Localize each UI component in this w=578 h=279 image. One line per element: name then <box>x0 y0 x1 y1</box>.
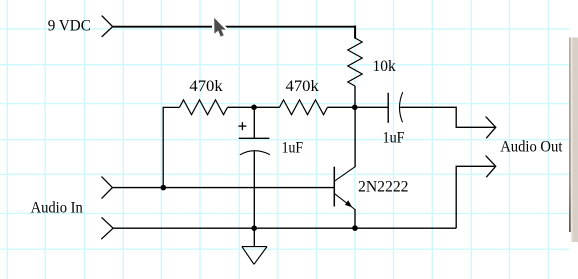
wire 10k to collector node <box>354 86 356 107</box>
wire 9V supply horizontal <box>113 26 356 28</box>
wire C2 to output corner <box>400 107 495 127</box>
resistor 470k right <box>280 100 328 115</box>
port Audio Out bottom <box>486 156 496 177</box>
svg-text:9 VDC: 9 VDC <box>48 17 91 34</box>
node input junction <box>161 185 167 191</box>
port 9 VDC <box>102 16 113 37</box>
capacitor C1 curved plate <box>240 151 270 155</box>
svg-text:10k: 10k <box>373 58 396 75</box>
capacitor C1 top plate <box>239 137 270 139</box>
node ground rail / C1 junction <box>251 225 257 231</box>
wire R1 to bias node <box>228 106 255 108</box>
svg-text:Audio In: Audio In <box>31 200 83 217</box>
svg-text:470k: 470k <box>189 78 222 95</box>
mouse cursor <box>214 18 226 37</box>
wire ground rail <box>113 227 456 229</box>
node ground rail / emitter junction <box>352 225 358 231</box>
wire bias node to R2 <box>254 106 280 108</box>
port Audio Out top <box>486 117 496 138</box>
ground symbol <box>242 247 267 265</box>
port Audio In bottom <box>102 218 114 239</box>
capacitor C1 1uF electrolytic plus sign <box>238 122 246 130</box>
transistor Q1 emitter stroke <box>334 194 355 210</box>
transistor Q1 emitter arrowhead <box>345 200 352 207</box>
transistor Q1 2N2222 base bar <box>333 167 335 207</box>
resistor 470k left <box>180 100 228 115</box>
wire ground rail to output corner bottom <box>456 166 495 228</box>
wire collector lead <box>354 107 356 167</box>
wire R2 to collector node <box>328 106 356 108</box>
svg-text:1uF: 1uF <box>282 139 304 156</box>
wire 9V supply drop to R3 <box>354 26 356 39</box>
wire collector node to C2 <box>355 106 388 108</box>
port Audio In top <box>102 177 113 198</box>
resistor 10k <box>348 38 362 86</box>
svg-text:2N2222: 2N2222 <box>358 178 409 195</box>
wire C1 to ground rail <box>253 151 255 247</box>
wire emitter lead <box>354 209 356 228</box>
window edge strip <box>569 38 578 243</box>
node collector junction <box>352 105 358 111</box>
capacitor C1 top lead <box>253 107 255 138</box>
svg-text:470k: 470k <box>286 78 319 95</box>
svg-text:Audio Out: Audio Out <box>500 138 563 155</box>
node bias junction <box>251 105 257 111</box>
wire audio input to base <box>112 187 334 189</box>
wire bias rail left corner <box>163 107 179 187</box>
capacitor C2 straight plate <box>387 93 389 123</box>
transistor Q1 collector stroke <box>334 167 355 182</box>
capacitor C2 curved plate <box>399 92 402 122</box>
svg-text:1uF: 1uF <box>383 129 405 146</box>
